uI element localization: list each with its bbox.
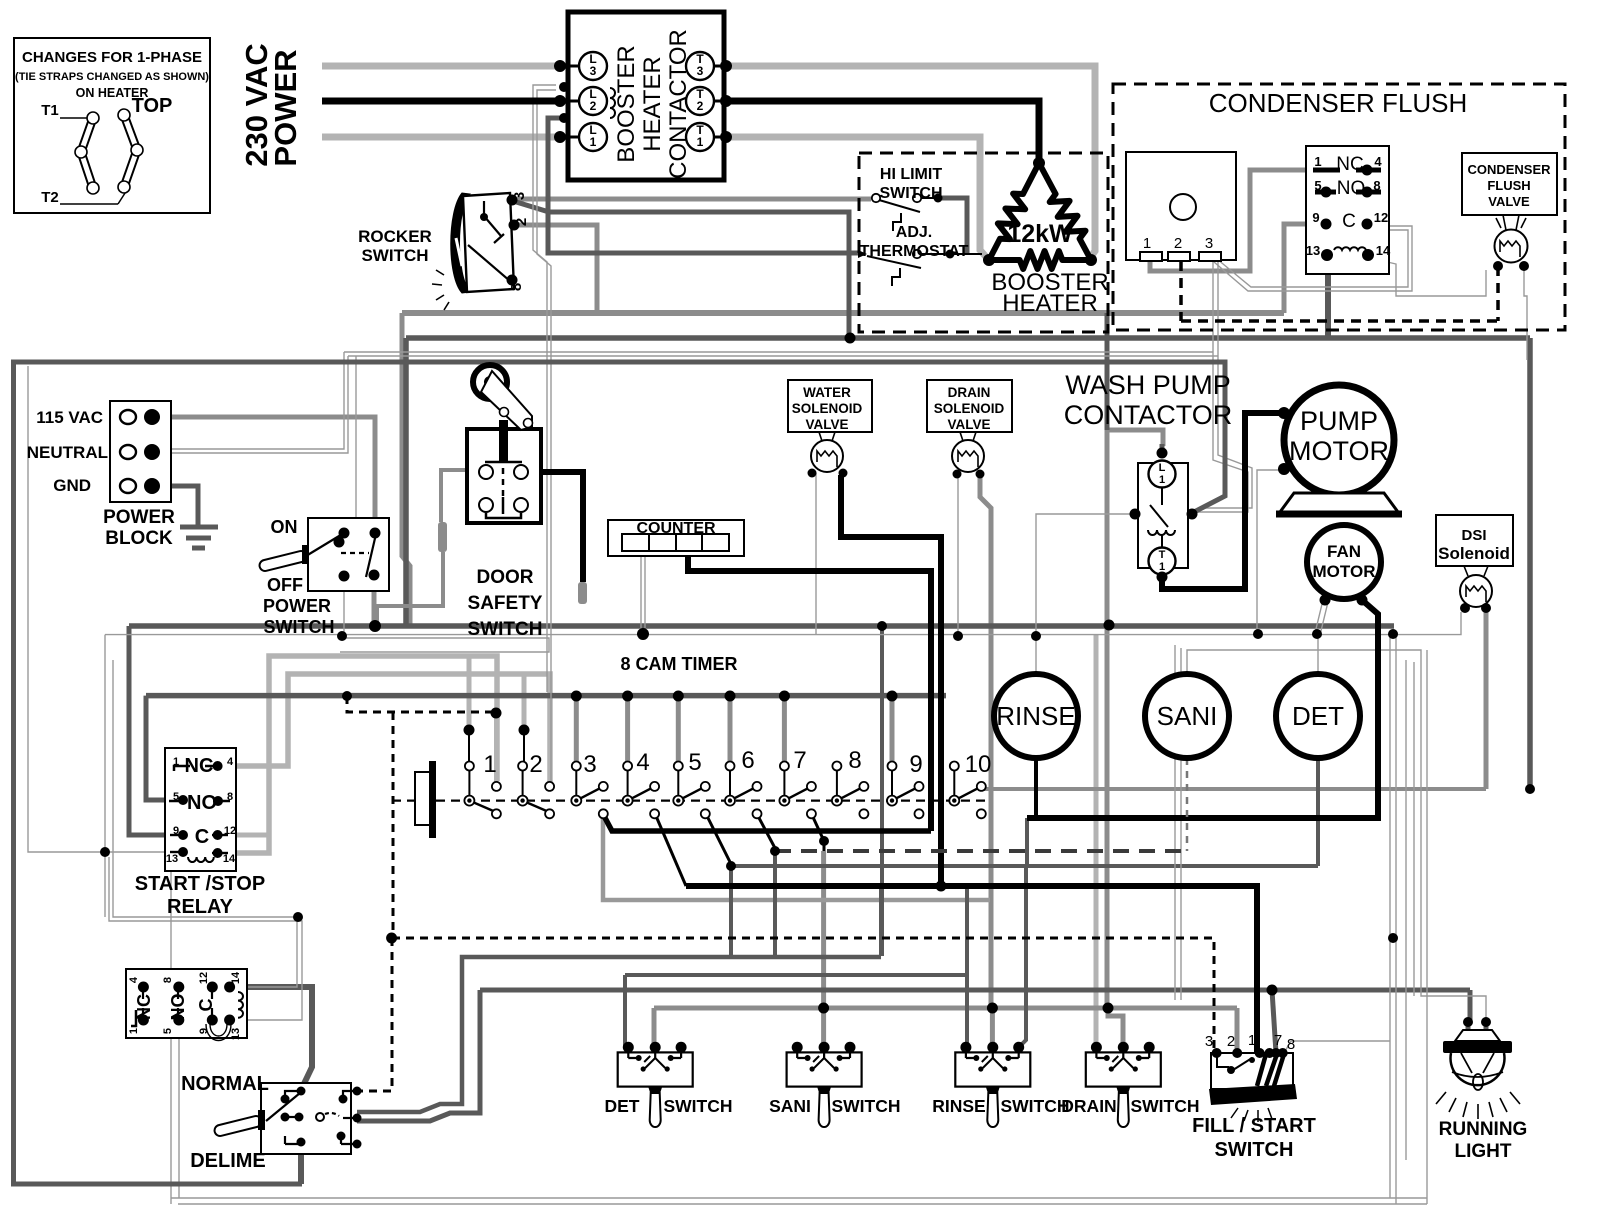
- svg-text:VALVE: VALVE: [805, 417, 848, 432]
- svg-text:VALVE: VALVE: [947, 417, 990, 432]
- svg-text:RUNNING: RUNNING: [1439, 1119, 1528, 1140]
- svg-text:T1: T1: [41, 102, 59, 119]
- svg-text:RINSE: RINSE: [932, 1096, 985, 1116]
- svg-text:VALVE: VALVE: [1488, 194, 1530, 209]
- svg-text:14: 14: [230, 971, 242, 984]
- svg-text:SWITCH: SWITCH: [879, 185, 942, 202]
- svg-text:NO: NO: [187, 792, 217, 814]
- svg-text:FLUSH: FLUSH: [1487, 178, 1530, 193]
- svg-text:3: 3: [697, 64, 704, 78]
- svg-text:L: L: [1159, 462, 1166, 474]
- svg-text:NEUTRAL: NEUTRAL: [27, 443, 108, 462]
- svg-text:FILL / START: FILL / START: [1192, 1115, 1316, 1137]
- svg-text:9: 9: [1312, 210, 1319, 225]
- svg-text:CONDENSER FLUSH: CONDENSER FLUSH: [1209, 88, 1468, 118]
- svg-text:6: 6: [741, 747, 754, 774]
- svg-text:3: 3: [583, 751, 596, 778]
- svg-text:2: 2: [513, 218, 530, 226]
- svg-text:1: 1: [1314, 154, 1321, 169]
- svg-text:2: 2: [590, 99, 597, 113]
- svg-text:SWITCH: SWITCH: [468, 619, 543, 640]
- svg-text:COUNTER: COUNTER: [636, 520, 716, 537]
- svg-text:PUMP: PUMP: [1300, 406, 1378, 436]
- svg-text:8: 8: [1287, 1036, 1295, 1053]
- svg-text:8 CAM TIMER: 8 CAM TIMER: [621, 654, 738, 674]
- svg-text:RINSE: RINSE: [996, 701, 1075, 731]
- svg-text:SWITCH: SWITCH: [264, 617, 335, 637]
- svg-text:2: 2: [1174, 235, 1182, 252]
- svg-text:CONTACTOR: CONTACTOR: [1064, 400, 1233, 430]
- svg-text:SOLENOID: SOLENOID: [792, 401, 863, 416]
- svg-text:THERMOSTAT: THERMOSTAT: [860, 243, 969, 260]
- svg-text:9: 9: [173, 825, 179, 837]
- svg-text:DRAIN: DRAIN: [948, 385, 991, 400]
- svg-text:CHANGES FOR 1-PHASE: CHANGES FOR 1-PHASE: [22, 49, 202, 66]
- svg-text:NC: NC: [185, 755, 214, 777]
- svg-text:5: 5: [162, 1028, 174, 1034]
- svg-text:SWITCH: SWITCH: [361, 246, 428, 265]
- svg-text:230 VAC: 230 VAC: [239, 43, 274, 167]
- svg-text:Solenoid: Solenoid: [1438, 544, 1510, 563]
- svg-text:1: 1: [1143, 235, 1151, 252]
- svg-text:5: 5: [1314, 178, 1321, 193]
- svg-text:SANI: SANI: [1157, 701, 1218, 731]
- svg-text:DOOR: DOOR: [477, 567, 534, 588]
- svg-text:HEATER: HEATER: [639, 56, 666, 152]
- svg-text:SOLENOID: SOLENOID: [934, 401, 1005, 416]
- svg-text:8: 8: [1373, 178, 1380, 193]
- svg-text:2: 2: [697, 99, 704, 113]
- svg-text:3: 3: [511, 192, 528, 200]
- svg-text:4: 4: [1374, 154, 1382, 169]
- svg-text:SWITCH: SWITCH: [831, 1096, 900, 1116]
- svg-text:WASH PUMP: WASH PUMP: [1065, 370, 1231, 400]
- svg-text:14: 14: [223, 853, 236, 865]
- svg-text:SWITCH: SWITCH: [1000, 1096, 1069, 1116]
- svg-text:RELAY: RELAY: [167, 896, 234, 918]
- svg-text:LIGHT: LIGHT: [1455, 1141, 1512, 1162]
- svg-text:7: 7: [1274, 1032, 1282, 1049]
- svg-text:NC: NC: [1336, 154, 1363, 175]
- svg-text:5: 5: [688, 749, 701, 776]
- svg-text:8: 8: [848, 747, 861, 774]
- svg-text:C: C: [1342, 211, 1356, 232]
- svg-text:FAN: FAN: [1327, 542, 1361, 561]
- svg-text:C: C: [196, 999, 216, 1012]
- svg-text:12: 12: [1374, 210, 1388, 225]
- svg-text:13: 13: [1306, 243, 1320, 258]
- svg-text:START /STOP: START /STOP: [135, 873, 265, 895]
- svg-text:1: 1: [1159, 561, 1165, 573]
- svg-text:2: 2: [1227, 1033, 1235, 1050]
- svg-text:14: 14: [1376, 243, 1391, 258]
- svg-text:NC: NC: [134, 994, 154, 1020]
- svg-text:WATER: WATER: [803, 385, 851, 400]
- svg-text:DET: DET: [1292, 701, 1344, 731]
- svg-text:NO: NO: [1337, 178, 1366, 199]
- svg-text:12: 12: [198, 972, 210, 984]
- svg-text:T2: T2: [41, 189, 59, 206]
- svg-text:1: 1: [590, 135, 597, 149]
- svg-text:SANI: SANI: [769, 1096, 811, 1116]
- svg-text:12: 12: [224, 825, 236, 837]
- svg-text:MOTOR: MOTOR: [1313, 562, 1376, 581]
- svg-text:ROCKER: ROCKER: [358, 227, 432, 246]
- svg-text:1: 1: [1248, 1032, 1256, 1049]
- svg-text:SAFETY: SAFETY: [468, 593, 543, 614]
- svg-text:3: 3: [590, 64, 597, 78]
- svg-text:13: 13: [230, 1028, 242, 1040]
- svg-text:1: 1: [128, 1028, 140, 1034]
- svg-text:SWITCH: SWITCH: [663, 1096, 732, 1116]
- svg-text:GND: GND: [53, 476, 91, 495]
- svg-text:HI LIMIT: HI LIMIT: [880, 166, 942, 183]
- svg-text:9: 9: [909, 751, 922, 778]
- svg-text:DSI: DSI: [1461, 527, 1486, 544]
- svg-text:1: 1: [1159, 474, 1165, 486]
- svg-text:8: 8: [162, 977, 174, 983]
- svg-text:CONDENSER: CONDENSER: [1467, 162, 1551, 177]
- svg-text:NO: NO: [168, 994, 188, 1021]
- svg-text:ADJ.: ADJ.: [896, 224, 932, 241]
- svg-text:(TIE STRAPS CHANGED AS SHOWN): (TIE STRAPS CHANGED AS SHOWN): [15, 71, 209, 83]
- svg-text:NORMAL: NORMAL: [181, 1073, 269, 1095]
- svg-text:1: 1: [697, 135, 704, 149]
- svg-text:SWITCH: SWITCH: [1215, 1139, 1294, 1161]
- svg-text:POWER: POWER: [103, 507, 175, 528]
- svg-text:9: 9: [198, 1028, 210, 1034]
- svg-text:4: 4: [636, 749, 649, 776]
- svg-text:2: 2: [529, 751, 542, 778]
- svg-text:DET: DET: [605, 1096, 640, 1116]
- svg-text:DRAIN: DRAIN: [1061, 1096, 1116, 1116]
- svg-text:7: 7: [793, 747, 806, 774]
- svg-text:MOTOR: MOTOR: [1289, 436, 1389, 466]
- svg-text:115 VAC: 115 VAC: [36, 408, 103, 427]
- svg-text:3: 3: [1205, 1033, 1213, 1050]
- svg-text:3: 3: [1205, 235, 1213, 252]
- svg-text:C: C: [195, 826, 209, 848]
- svg-text:BLOCK: BLOCK: [105, 528, 173, 549]
- svg-text:TOP: TOP: [132, 95, 173, 117]
- svg-text:OFF: OFF: [267, 575, 303, 595]
- svg-text:HEATER: HEATER: [1002, 290, 1098, 317]
- svg-text:13: 13: [166, 853, 178, 865]
- svg-text:SWITCH: SWITCH: [1130, 1096, 1199, 1116]
- svg-text:5: 5: [173, 791, 179, 803]
- svg-text:POWER: POWER: [263, 596, 331, 616]
- svg-text:1: 1: [173, 756, 179, 768]
- svg-text:8: 8: [508, 283, 525, 291]
- svg-text:1: 1: [483, 751, 496, 778]
- svg-text:DELIME: DELIME: [190, 1150, 266, 1172]
- svg-text:4: 4: [128, 976, 140, 983]
- svg-text:4: 4: [227, 756, 234, 768]
- svg-text:ON: ON: [271, 517, 298, 537]
- svg-text:8: 8: [227, 791, 233, 803]
- svg-text:12kW: 12kW: [1007, 220, 1073, 248]
- svg-text:BOOSTER: BOOSTER: [613, 45, 640, 162]
- svg-text:CONTACTOR: CONTACTOR: [665, 29, 692, 179]
- svg-text:T: T: [1159, 549, 1166, 561]
- svg-text:10: 10: [965, 751, 992, 778]
